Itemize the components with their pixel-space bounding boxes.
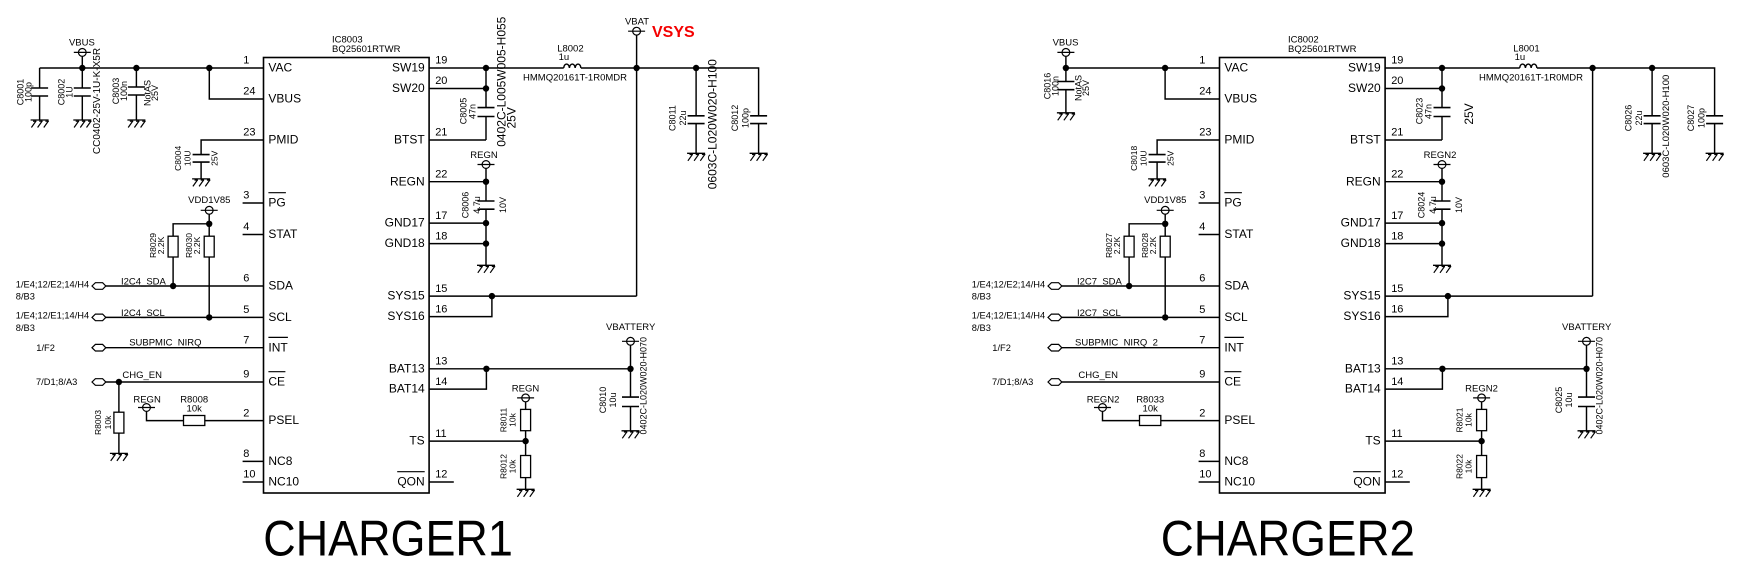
pin 11 TS (1365, 428, 1402, 448)
wire VSYS to SYS15 (429, 68, 636, 296)
svg-text:1u: 1u (1515, 52, 1526, 63)
power VBAT (625, 16, 649, 68)
capacitor C8006 4.7u 10V (460, 192, 508, 219)
svg-text:STAT: STAT (1224, 227, 1254, 241)
wire VSYS to C8012 (696, 68, 759, 116)
junction SW19 (1439, 65, 1445, 71)
svg-text:TS: TS (409, 434, 424, 448)
ground (192, 179, 210, 187)
svg-text:BTST: BTST (394, 133, 425, 147)
junction VAC/VBUS branch (206, 65, 212, 71)
svg-text:HMMQ20161T-1R0MDR: HMMQ20161T-1R0MDR (1479, 73, 1583, 84)
svg-text:HMMQ20161T-1R0MDR: HMMQ20161T-1R0MDR (523, 73, 627, 84)
svg-text:C8027: C8027 (1686, 105, 1696, 132)
node SUBPMIC_NIRQ_2 (992, 343, 1062, 353)
ground (687, 153, 705, 161)
resistor R8012 10k (498, 454, 530, 479)
svg-text:BQ25601RTWR: BQ25601RTWR (332, 44, 401, 55)
pin 11 TS (409, 428, 446, 448)
wire CHG_EN to R8003 (118, 382, 120, 412)
capacitor C8025 10u (1554, 387, 1595, 431)
junction CHG_EN (116, 379, 122, 385)
junction BAT13 (483, 366, 489, 372)
junction SYS15 (489, 293, 495, 299)
svg-text:SW20: SW20 (392, 81, 425, 95)
svg-text:1/F2: 1/F2 (992, 343, 1011, 353)
svg-text:1U: 1U (64, 86, 74, 98)
junction SW19 (483, 65, 489, 71)
pin 18 GND18 (385, 230, 448, 250)
svg-text:0402C-L020W020-H070: 0402C-L020W020-H070 (639, 337, 649, 435)
wire SYS16 (429, 296, 492, 317)
power REGN2 (1087, 394, 1140, 420)
wire SW20 (1385, 88, 1442, 90)
ground (110, 453, 128, 461)
wire REGN to C8006 (485, 182, 487, 201)
wire SW19 rail (1385, 67, 1520, 69)
pin 24 VBUS (243, 86, 301, 106)
svg-text:REGN: REGN (512, 384, 540, 395)
node I2C7_SDA (972, 279, 1062, 301)
svg-text:9: 9 (1199, 369, 1205, 381)
svg-text:22: 22 (435, 168, 447, 180)
wire to VBUS pin (1165, 68, 1219, 99)
capacitor C8005 47n 25V (458, 16, 518, 146)
junction VBATTERY (627, 366, 633, 372)
svg-text:SDA: SDA (268, 279, 293, 293)
label CHARGER1 (263, 511, 513, 567)
junction GND17 (1439, 220, 1445, 226)
svg-text:I2C7_SDA: I2C7_SDA (1077, 277, 1123, 288)
svg-text:10k: 10k (103, 415, 113, 429)
svg-text:NC8: NC8 (268, 454, 292, 468)
svg-text:10U: 10U (183, 151, 193, 167)
junction REGN (483, 179, 489, 185)
wire BAT13 (429, 368, 630, 370)
wire SW to C8023 (1385, 68, 1442, 140)
ground (1643, 153, 1661, 161)
junction C8026 (1649, 65, 1655, 71)
IC IC8003 BQ25601RTWR battery charger (264, 35, 430, 494)
svg-text:VBAT: VBAT (625, 16, 649, 27)
pin 13 BAT13 (389, 356, 448, 376)
wire I2C4_SDA (106, 277, 264, 288)
pin 13 BAT13 (1345, 356, 1404, 376)
wire CHG_EN (1062, 370, 1220, 382)
svg-text:CHG_EN: CHG_EN (1078, 370, 1118, 381)
svg-text:C8010: C8010 (598, 387, 608, 414)
svg-text:23: 23 (1199, 127, 1211, 139)
junction C8003 (133, 65, 139, 71)
wire inductor to VSYS node (581, 67, 637, 69)
svg-text:BTST: BTST (1350, 133, 1381, 147)
node I2C7_SCL (972, 311, 1062, 333)
svg-text:7: 7 (243, 334, 249, 346)
pin 5 SCL (1199, 304, 1248, 324)
power VBATTERY (606, 322, 656, 369)
ground (127, 120, 145, 128)
svg-text:16: 16 (435, 303, 447, 315)
svg-text:22u: 22u (1634, 110, 1644, 125)
ground (750, 153, 768, 161)
svg-text:21: 21 (435, 127, 447, 139)
svg-text:24: 24 (243, 86, 255, 98)
svg-text:VBUS: VBUS (69, 38, 95, 49)
svg-text:REGN2: REGN2 (1424, 150, 1457, 161)
svg-text:2: 2 (1199, 407, 1205, 419)
svg-text:SUBPMIC_NIRQ: SUBPMIC_NIRQ (129, 337, 201, 348)
svg-text:11: 11 (1391, 428, 1402, 440)
svg-text:INT: INT (1224, 340, 1244, 354)
wire VBUS input rail (40, 67, 264, 69)
junction SCL (1162, 314, 1168, 320)
svg-text:VAC: VAC (1224, 61, 1248, 75)
svg-text:C8018: C8018 (1129, 146, 1139, 171)
wire CHG_EN (106, 370, 264, 382)
power REGN2 at TS divider (1465, 384, 1498, 410)
pin 19 SW19 (392, 55, 447, 75)
pin 22 REGN (1346, 168, 1403, 188)
svg-text:1: 1 (1199, 55, 1205, 67)
svg-text:1/E4;12/E2;14/H4: 1/E4;12/E2;14/H4 (16, 279, 89, 289)
pin 19 SW19 (1348, 55, 1403, 75)
wire GND18 (1385, 243, 1442, 245)
ground (1473, 489, 1491, 497)
wire R8021 to TS (1481, 431, 1483, 441)
wire VDD1V85 to R8029 (173, 224, 209, 236)
svg-text:0402C-L020W020-H070: 0402C-L020W020-H070 (1595, 337, 1605, 435)
svg-text:I2C4_SDA: I2C4_SDA (121, 277, 167, 288)
pin 23 PMID (1199, 127, 1254, 147)
svg-text:9: 9 (243, 369, 249, 381)
junction GND17 (483, 220, 489, 226)
wire SUBPMIC_NIRQ (106, 337, 264, 348)
resistor R8022 10k (1454, 454, 1486, 479)
capacitor C8026 22u (1624, 68, 1661, 153)
part number CC0402-25V-1U-K-X5R (92, 48, 103, 154)
svg-text:4: 4 (243, 221, 249, 233)
wire I2C7_SCL (1062, 308, 1220, 319)
svg-text:PSEL: PSEL (1224, 413, 1255, 427)
svg-text:100p: 100p (1696, 108, 1706, 128)
svg-text:C8004: C8004 (173, 146, 183, 171)
svg-text:10U: 10U (1139, 151, 1149, 167)
capacitor C8003 100n (111, 68, 160, 120)
svg-text:100p: 100p (24, 82, 34, 102)
ground (622, 431, 640, 439)
svg-text:47n: 47n (1424, 104, 1434, 119)
capacitor C8024 4.7u 10V (1416, 192, 1464, 219)
svg-text:10u: 10u (1564, 392, 1574, 407)
part number 0402C-L020W020-H070 (1595, 337, 1605, 435)
pin 1 VAC (243, 55, 292, 75)
resistor R8029 2.2K (148, 233, 178, 258)
pin 10 NC10 (243, 469, 300, 489)
svg-text:10: 10 (1199, 469, 1211, 481)
node I2C4_SCL (16, 311, 106, 333)
pin 20 SW20 (1348, 75, 1403, 95)
svg-text:VDD1V85: VDD1V85 (1144, 195, 1186, 206)
wire R8003 to ground (118, 433, 120, 453)
wire REGN pin (429, 181, 486, 183)
wire SYS16 (1385, 296, 1448, 317)
svg-text:I2C7_SCL: I2C7_SCL (1077, 308, 1121, 319)
junction SDA (170, 283, 176, 289)
svg-text:10: 10 (243, 469, 255, 481)
svg-text:4.7u: 4.7u (472, 196, 482, 214)
node CHG_EN (36, 377, 106, 387)
IC IC8002 BQ25601RTWR battery charger (1220, 35, 1386, 494)
svg-text:GND17: GND17 (385, 216, 425, 230)
wire R8027 to SDA (1128, 257, 1130, 286)
svg-text:TS: TS (1365, 434, 1380, 448)
ground (477, 265, 495, 273)
wire REGN pin (1385, 181, 1442, 183)
capacitor C8016 100n (1043, 68, 1092, 113)
svg-text:100p: 100p (740, 108, 750, 128)
svg-text:10k: 10k (507, 412, 517, 426)
svg-text:10V: 10V (1454, 197, 1464, 213)
wire I2C4_SCL (106, 308, 264, 319)
svg-text:0603C-L020W020-H100: 0603C-L020W020-H100 (706, 59, 720, 189)
svg-text:REGN: REGN (470, 150, 498, 161)
pin 21 BTST (1350, 127, 1403, 147)
pin 2 PSEL (1199, 407, 1255, 427)
svg-text:VSYS: VSYS (652, 24, 695, 41)
junction C8011 (693, 65, 699, 71)
junction TS (1478, 438, 1484, 444)
svg-text:VBATTERY: VBATTERY (606, 322, 656, 333)
pin 9 CE (243, 369, 285, 389)
wire R8028 to SCL (1164, 257, 1166, 317)
svg-text:8/B3: 8/B3 (972, 323, 991, 333)
svg-text:QON: QON (397, 475, 424, 489)
junction REGN (1439, 179, 1445, 185)
ground (1433, 265, 1451, 273)
capacitor C8012 100p (730, 105, 767, 154)
capacitor C8002 1U (57, 68, 91, 120)
power VBUS (1053, 38, 1079, 68)
junction SCL (206, 314, 212, 320)
pin 15 SYS15 (1343, 283, 1403, 303)
svg-text:4: 4 (1199, 221, 1205, 233)
svg-text:25V: 25V (210, 150, 220, 165)
ground (1148, 179, 1166, 187)
wire C8024 to ground (1441, 209, 1443, 265)
part number 0402C-L020W020-H070 (639, 337, 649, 435)
svg-text:SCL: SCL (1224, 310, 1248, 324)
svg-text:25V: 25V (1166, 150, 1176, 165)
svg-text:C8025: C8025 (1554, 387, 1564, 414)
ground (73, 120, 91, 128)
svg-text:100n: 100n (119, 81, 129, 101)
pin 7 INT (243, 334, 288, 354)
junction VBATTERY (1583, 366, 1589, 372)
svg-text:1/E4;12/E1;14/H4: 1/E4;12/E1;14/H4 (972, 311, 1045, 321)
node CHG_EN (992, 377, 1062, 387)
resistor R8027 2.2K (1104, 233, 1134, 258)
wire C8006 to ground (485, 209, 487, 265)
pin 14 BAT14 (1345, 376, 1404, 396)
svg-text:10k: 10k (187, 404, 203, 415)
junction TS (522, 438, 528, 444)
svg-text:10u: 10u (608, 392, 618, 407)
power VBUS (69, 38, 95, 68)
capacitor C8023 47n 25V (1414, 98, 1476, 125)
junction VBUS (79, 65, 85, 71)
svg-text:QON: QON (1353, 475, 1380, 489)
svg-text:SDA: SDA (1224, 279, 1249, 293)
wire PMID to C8004 (201, 140, 263, 179)
svg-text:7/D1;8/A3: 7/D1;8/A3 (992, 377, 1033, 387)
power REGN at REGN pin (470, 150, 498, 182)
capacitor C8010 10u (598, 387, 639, 431)
svg-text:NC10: NC10 (268, 475, 299, 489)
svg-text:REGN: REGN (390, 174, 425, 188)
svg-text:25V: 25V (150, 85, 160, 101)
wire REGN to C8024 (1441, 182, 1443, 201)
svg-text:10k: 10k (1463, 412, 1473, 426)
wire VBUS input rail (1066, 67, 1220, 69)
svg-text:24: 24 (1199, 86, 1211, 98)
svg-text:0603C-L020W020-H100: 0603C-L020W020-H100 (1661, 75, 1672, 178)
svg-text:BAT14: BAT14 (389, 382, 425, 396)
power VBATTERY (1562, 322, 1612, 369)
wire VSYS rail (637, 67, 697, 69)
pin 3 PG (243, 190, 286, 210)
svg-text:GND17: GND17 (1341, 216, 1381, 230)
svg-text:4.7u: 4.7u (1428, 196, 1438, 214)
junction SW20 (1439, 85, 1445, 91)
pin 4 STAT (1199, 221, 1254, 241)
pin 3 PG (1199, 190, 1242, 210)
svg-text:SW19: SW19 (392, 61, 425, 75)
svg-text:NC8: NC8 (1224, 454, 1248, 468)
svg-text:BQ25601RTWR: BQ25601RTWR (1288, 44, 1357, 55)
svg-text:8/B3: 8/B3 (16, 323, 35, 333)
svg-text:1/E4;12/E1;14/H4: 1/E4;12/E1;14/H4 (16, 311, 89, 321)
svg-text:BAT14: BAT14 (1345, 382, 1381, 396)
pin 21 BTST (394, 127, 447, 147)
pin 10 NC10 (1199, 469, 1256, 489)
svg-text:15: 15 (435, 283, 447, 295)
svg-text:C8011: C8011 (668, 105, 678, 131)
svg-text:1/F2: 1/F2 (36, 343, 55, 353)
wire BAT14 (429, 369, 486, 389)
wire BAT13 (1385, 368, 1586, 370)
wire TS to R8022 (1481, 441, 1483, 455)
wire BAT14 (1385, 369, 1442, 389)
svg-text:2.2K: 2.2K (1148, 236, 1158, 254)
svg-text:VAC: VAC (268, 61, 292, 75)
svg-text:C8024: C8024 (1416, 192, 1426, 219)
svg-text:5: 5 (243, 304, 249, 316)
svg-text:5: 5 (1199, 304, 1205, 316)
svg-text:18: 18 (1391, 230, 1403, 242)
pin 17 GND17 (385, 210, 448, 230)
wire VSYS rail (1593, 67, 1653, 69)
capacitor C8001 100p (16, 68, 49, 120)
svg-text:CE: CE (268, 375, 285, 389)
pin 4 STAT (243, 221, 298, 241)
svg-text:STAT: STAT (268, 227, 298, 241)
svg-text:3: 3 (1199, 190, 1205, 202)
pin 22 REGN (390, 168, 447, 188)
svg-text:CHARGER2: CHARGER2 (1161, 511, 1415, 567)
svg-text:19: 19 (435, 55, 447, 67)
svg-text:REGN2: REGN2 (1465, 384, 1498, 395)
svg-text:GND18: GND18 (385, 236, 425, 250)
wire SW19 rail (429, 67, 564, 69)
svg-text:SYS15: SYS15 (387, 289, 425, 303)
svg-text:BAT13: BAT13 (1345, 361, 1381, 375)
svg-text:22: 22 (1391, 168, 1403, 180)
svg-text:R8003: R8003 (93, 410, 103, 435)
svg-text:SYS15: SYS15 (1343, 289, 1381, 303)
power REGN at TS divider (512, 384, 540, 410)
svg-text:PG: PG (268, 196, 285, 210)
wire R8008 to PSEL (205, 420, 264, 422)
svg-text:C8012: C8012 (730, 105, 740, 132)
junction SW20 (483, 85, 489, 91)
wire R8030 to SCL (208, 257, 210, 317)
wire TS (429, 440, 525, 442)
pin 17 GND17 (1341, 210, 1404, 230)
wire R8012 to ground (525, 478, 527, 490)
svg-text:1: 1 (243, 55, 249, 67)
svg-text:SCL: SCL (268, 310, 292, 324)
wire SW to C8005 (429, 68, 486, 140)
svg-text:13: 13 (1391, 356, 1403, 368)
wire VBATTERY to C8010 (630, 369, 632, 397)
capacitor C8018 10U 25V (1129, 146, 1176, 171)
svg-text:100n: 100n (1050, 76, 1060, 96)
svg-text:15: 15 (1391, 283, 1403, 295)
wire inductor to VSYS node (1537, 67, 1593, 69)
part number 0603C-L020W020-H100 (1661, 75, 1672, 178)
svg-text:25V: 25V (1081, 80, 1091, 96)
svg-text:1u: 1u (559, 52, 570, 63)
svg-text:C8006: C8006 (460, 192, 470, 219)
svg-text:SUBPMIC_NIRQ_2: SUBPMIC_NIRQ_2 (1075, 337, 1158, 348)
svg-text:CC0402-25V-1U-K-X5R: CC0402-25V-1U-K-X5R (92, 48, 103, 154)
pin 7 INT (1199, 334, 1244, 354)
svg-text:19: 19 (1391, 55, 1403, 67)
wire GND17 (1385, 222, 1442, 224)
pin 1 VAC (1199, 55, 1248, 75)
pin 16 SYS16 (1343, 303, 1403, 323)
svg-text:8: 8 (243, 448, 249, 460)
wire SUBPMIC_NIRQ_2 (1062, 337, 1220, 348)
power VDD1V85 (1144, 195, 1186, 224)
svg-text:12: 12 (435, 469, 447, 481)
ground (1057, 113, 1075, 121)
svg-text:PMID: PMID (268, 133, 298, 147)
pin 8 NC8 (243, 448, 293, 468)
pin 9 CE (1199, 369, 1241, 389)
svg-text:2.2K: 2.2K (1112, 236, 1122, 254)
svg-text:VBUS: VBUS (268, 92, 301, 106)
svg-text:10k: 10k (507, 459, 517, 473)
svg-text:VDD1V85: VDD1V85 (188, 195, 230, 206)
wire to VBUS pin (209, 68, 263, 99)
pin 6 SDA (243, 273, 293, 293)
svg-text:7: 7 (1199, 334, 1205, 346)
resistor R8003 10k (93, 410, 124, 435)
svg-text:17: 17 (435, 210, 447, 222)
node SUBPMIC_NIRQ (36, 343, 106, 353)
pin 20 SW20 (392, 75, 447, 95)
